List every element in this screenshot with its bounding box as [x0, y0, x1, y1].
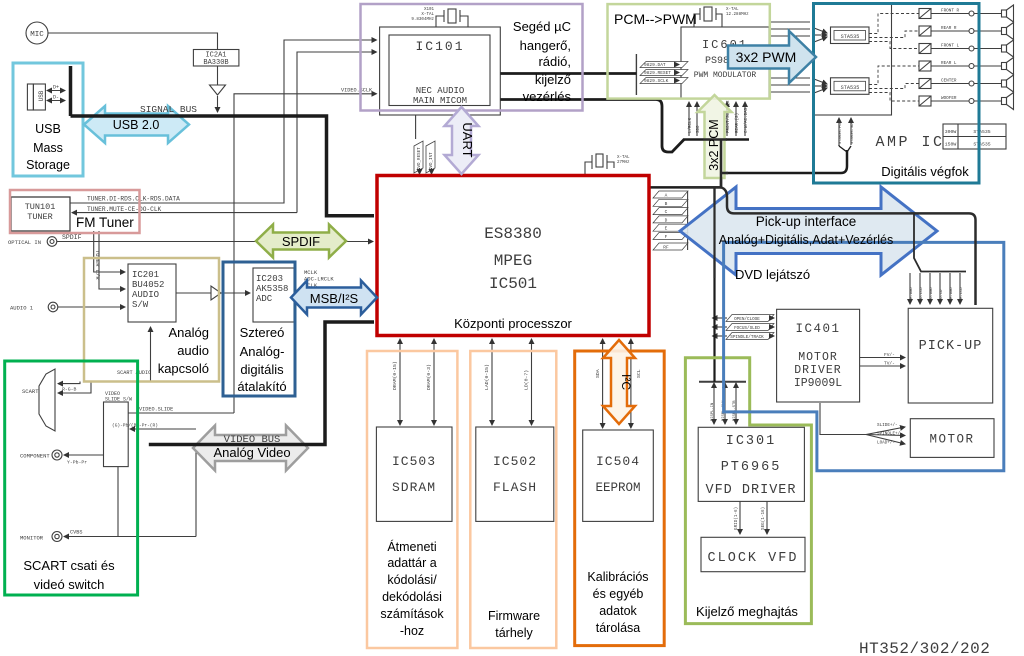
wire video bus thick: [149, 322, 374, 445]
crystal X601: [694, 7, 749, 27]
connector AUDIO 1: [10, 302, 58, 312]
memory bus arrows SDRAM: [392, 339, 434, 425]
svg-text:IC203: IC203: [256, 274, 283, 284]
wire junction vertical: [720, 140, 723, 188]
svg-text:SPINDLE+/-: SPINDLE+/-: [877, 432, 903, 437]
svg-text:Digitális végfok: Digitális végfok: [881, 164, 969, 179]
wire FV TV to pickup: [860, 352, 905, 367]
svg-text:9829.RESET: 9829.RESET: [644, 70, 671, 76]
svg-text:E: E: [665, 226, 668, 232]
svg-text:LD(0-7): LD(0-7): [524, 370, 530, 390]
svg-text:9829.SCLK: 9829.SCLK: [644, 78, 669, 84]
wire scart audio: [117, 327, 151, 381]
node PCM fan labels under IC601: [688, 98, 749, 136]
wire display control into IC301: [699, 382, 746, 424]
wire IC301 to clock vfd: [734, 501, 767, 534]
node TUNER L/R: [94, 250, 101, 280]
svg-text:FRONT L: FRONT L: [941, 44, 959, 49]
svg-text:számítások: számítások: [380, 607, 444, 621]
svg-text:SCL: SCL: [636, 369, 642, 378]
svg-text:IC503: IC503: [392, 454, 436, 469]
svg-text:X-TAL: X-TAL: [726, 8, 739, 12]
svg-text:IP9009L: IP9009L: [794, 377, 842, 390]
svg-text:REAR L: REAR L: [941, 61, 957, 66]
svg-text:AMP IC: AMP IC: [875, 134, 944, 151]
svg-text:VFD DRIVER: VFD DRIVER: [705, 483, 796, 498]
svg-text:DVD lejátszó: DVD lejátszó: [735, 267, 810, 282]
svg-text:MOTOR: MOTOR: [929, 433, 974, 447]
svg-text:WR.DWD: WR.DWD: [950, 287, 954, 301]
svg-text:STA535.SD: STA535.SD: [851, 123, 855, 144]
svg-text:MONITOR: MONITOR: [20, 535, 44, 542]
wire USB D+: [47, 90, 65, 92]
svg-text:WD.LCD: WD.LCD: [920, 287, 924, 301]
svg-text:D: D: [665, 217, 668, 223]
frame flash peach: [470, 351, 556, 648]
svg-text:TUNER: TUNER: [27, 212, 53, 222]
crystal X-TAL 27MHz: [585, 154, 630, 174]
svg-text:Központi processzor: Központi processzor: [454, 316, 572, 331]
THIN SCHEMATIC LAYER: [8, 7, 810, 542]
svg-text:LOAD+/-: LOAD+/-: [877, 441, 895, 446]
connector COMPONENT: [20, 450, 62, 460]
svg-text:D-: D-: [53, 95, 59, 101]
svg-text:hangerő,: hangerő,: [520, 38, 571, 53]
arrow USB 2.0: [84, 106, 189, 143]
wire pcm bus over arrow: [703, 140, 728, 188]
connector MONITOR: [20, 532, 62, 542]
svg-text:adatok: adatok: [599, 604, 637, 618]
svg-text:B: B: [665, 201, 668, 207]
svg-text:SCART AUDIO: SCART AUDIO: [117, 370, 151, 376]
svg-text:DRAM(0-15): DRAM(0-15): [392, 361, 398, 390]
arrow 3x2 PWM: [728, 31, 816, 83]
svg-text:Storage: Storage: [26, 158, 70, 172]
svg-text:IC201: IC201: [132, 270, 159, 280]
svg-text:és egyéb: és egyéb: [593, 587, 644, 601]
buffer triangle: [176, 286, 250, 300]
arrow 3x2 PCM up: [698, 95, 732, 178]
arrow UART: [445, 107, 479, 174]
frame adc blue: [223, 262, 295, 396]
svg-text:AUDIO 1: AUDIO 1: [10, 305, 34, 312]
svg-text:PCM-->PWM: PCM-->PWM: [614, 11, 697, 27]
svg-text:DVD_INT: DVD_INT: [430, 152, 434, 170]
memory bus arrows EEPROM: [595, 339, 642, 428]
svg-text:SLIDE+/-: SLIDE+/-: [877, 423, 898, 428]
svg-text:WR.DWD: WR.DWD: [910, 287, 914, 301]
svg-text:ES8380: ES8380: [484, 225, 542, 243]
wire MIC to IC2A1: [48, 33, 218, 50]
svg-text:AUDIO: AUDIO: [132, 290, 159, 300]
wire component rgb: [112, 423, 196, 430]
video slide switch box: [104, 391, 133, 467]
wire pcm to amp: [721, 150, 847, 173]
svg-text:3x2 PWM: 3x2 PWM: [736, 49, 797, 65]
svg-text:LAD(0-15): LAD(0-15): [484, 364, 490, 390]
svg-text:CENTER: CENTER: [941, 79, 957, 84]
svg-text:9829.DAT: 9829.DAT: [644, 62, 666, 68]
SCART connector symbol: [22, 369, 55, 431]
svg-text:D+: D+: [53, 85, 59, 91]
power amp STA535 lower: [831, 78, 870, 95]
wire audio1 to IC201: [58, 306, 125, 308]
cpu internal labels: [484, 225, 542, 293]
svg-text:SDRAM: SDRAM: [392, 480, 436, 495]
svg-text:STA535: STA535: [973, 142, 990, 148]
ADC IC203 AK5358: [253, 268, 294, 322]
svg-text:TV/-: TV/-: [884, 361, 895, 367]
node 9829 signal fan: [636, 54, 688, 95]
svg-text:R-G-B: R-G-B: [62, 387, 77, 393]
svg-text:FV/-: FV/-: [884, 352, 895, 358]
wire optical spdif to IC501: [57, 241, 373, 243]
eeprom IC504 inner box: [583, 430, 654, 521]
svg-text:SPDIF: SPDIF: [282, 234, 320, 249]
svg-text:NEC AUDIO: NEC AUDIO: [416, 86, 465, 96]
svg-text:CLOCK VFD: CLOCK VFD: [708, 551, 799, 566]
svg-text:USB: USB: [35, 122, 61, 136]
buffer amp triangle: [210, 66, 226, 112]
svg-text:Analóg: Analóg: [169, 325, 209, 340]
wire tuner control: [297, 52, 377, 213]
wire pcm bus: [683, 138, 749, 141]
svg-text:Segéd µC: Segéd µC: [513, 19, 571, 34]
svg-text:MOTOR: MOTOR: [798, 351, 838, 364]
speaker output channels: [869, 5, 1014, 110]
USB connector symbol: [27, 84, 45, 110]
svg-text:MSB/I²S: MSB/I²S: [310, 291, 359, 306]
micom IC101 outer: [380, 27, 501, 115]
node MCLK labels: [304, 269, 334, 289]
wire video slide: [128, 407, 234, 414]
power amp STA535 upper: [831, 27, 870, 44]
wire video sclk to IC101: [234, 94, 377, 413]
wire dvd top bus: [721, 187, 976, 305]
svg-text:Sztereó: Sztereó: [240, 325, 285, 340]
svg-text:USB: USB: [38, 90, 45, 101]
svg-text:S/W: S/W: [132, 300, 149, 310]
THICK BUS LAYER: [71, 66, 852, 382]
svg-text:DISPL.STB: DISPL.STB: [733, 400, 737, 421]
flash IC502 inner box: [476, 427, 554, 521]
svg-text:VIDEO.SLIDE: VIDEO.SLIDE: [139, 407, 173, 413]
svg-text:(G)-Pb/(B)-Pr-(R): (G)-Pb/(B)-Pr-(R): [112, 423, 158, 429]
svg-text:COMPONENT: COMPONENT: [20, 453, 50, 460]
svg-text:UART: UART: [460, 122, 475, 157]
svg-text:GRID(1-6): GRID(1-6): [734, 507, 739, 530]
frame vfd olive: [685, 358, 811, 624]
svg-text:IC301: IC301: [726, 434, 777, 449]
svg-text:TUNER L/R: TUNER L/R: [94, 250, 101, 280]
svg-text:X-TAL: X-TAL: [421, 13, 434, 17]
arrow analog video: [193, 426, 308, 471]
sdram IC503 inner box: [376, 427, 452, 521]
svg-text:Analóg Video: Analóg Video: [213, 445, 290, 460]
svg-text:DISPL.IN: DISPL.IN: [711, 403, 715, 421]
svg-text:FM Tuner: FM Tuner: [76, 215, 134, 230]
svg-text:C+W/AC.DAS: C+W/AC.DAS: [744, 107, 749, 133]
svg-text:FOCUS/SLED: FOCUS/SLED: [734, 326, 760, 331]
svg-text:CVBS: CVBS: [70, 530, 82, 536]
svg-text:DRAM(0-3): DRAM(0-3): [426, 364, 432, 390]
wire open/close focus/sled spindle/track: [713, 315, 775, 341]
frame pwm lightgreen: [608, 4, 770, 99]
wire STA pcm labels: [839, 118, 855, 145]
svg-text:STA535: STA535: [841, 34, 860, 40]
svg-text:STA535.PCM: STA535.PCM: [839, 120, 843, 144]
svg-text:PT6965: PT6965: [721, 460, 782, 475]
arrow SPDIF: [256, 225, 346, 258]
svg-text:VIDEO.SCLK: VIDEO.SCLK: [341, 88, 373, 94]
svg-text:OPTICAL IN: OPTICAL IN: [8, 239, 41, 246]
frame scart green: [5, 361, 138, 595]
svg-text:FRONT R: FRONT R: [941, 9, 959, 14]
THIN SCHEMATIC LAYER RIGHT: [698, 4, 1013, 656]
svg-text:DVD_RESET: DVD_RESET: [418, 147, 422, 170]
svg-text:dekódolási: dekódolási: [382, 590, 442, 604]
svg-text:MIC: MIC: [30, 31, 44, 39]
svg-text:IC501: IC501: [489, 275, 537, 293]
label sdram note: [380, 539, 648, 640]
svg-text:Analóg-: Analóg-: [240, 344, 285, 359]
svg-text:ADC: ADC: [256, 294, 273, 304]
svg-text:X101: X101: [424, 8, 435, 12]
svg-text:HT352/302/202: HT352/302/202: [859, 640, 990, 656]
svg-text:digitális: digitális: [240, 362, 284, 377]
wire dvd vertical over arrow: [680, 187, 721, 278]
svg-text:C: C: [665, 209, 668, 215]
svg-text:MAIN MICOM: MAIN MICOM: [413, 96, 467, 106]
svg-text:SCART csati és: SCART csati és: [23, 558, 115, 573]
amplifier IC2A1 BA330B: [193, 50, 239, 68]
wire tuner RDS data: [70, 40, 377, 203]
memory bus arrows FLASH: [484, 339, 532, 425]
micom IC101 inner: [389, 35, 490, 106]
svg-text:X-TAL: X-TAL: [617, 156, 630, 160]
svg-text:FLASH: FLASH: [493, 480, 537, 495]
frame tuner pink: [10, 190, 140, 233]
svg-text:RF: RF: [663, 245, 669, 251]
display CLOCK VFD box: [701, 537, 805, 571]
crystal X101: [411, 8, 468, 27]
svg-text:adattár a: adattár a: [387, 556, 436, 570]
frame cpu red: [377, 176, 649, 336]
svg-text:SPINDLE/TRACK: SPINDLE/TRACK: [730, 335, 764, 340]
frame eeprom orange: [575, 351, 665, 646]
wire rgb to scart: [58, 382, 80, 384]
wire dvd vertical to vfd: [713, 187, 715, 381]
svg-text:300W: 300W: [945, 129, 957, 135]
svg-text:TUNER.DI-RDS.CLK-RDS.DATA: TUNER.DI-RDS.CLK-RDS.DATA: [87, 196, 180, 203]
wire IC601 outputs to amp: [769, 22, 810, 92]
wire IC101 control bus down: [501, 100, 685, 153]
svg-text:BU4052: BU4052: [132, 280, 164, 290]
tuner TUN101 box: [11, 197, 70, 231]
svg-text:USB 2.0: USB 2.0: [113, 118, 160, 132]
frame audio switch khaki: [84, 258, 219, 382]
svg-text:PWM MODULATOR: PWM MODULATOR: [694, 71, 757, 80]
svg-text:9.8304MHz: 9.8304MHz: [411, 18, 434, 22]
wire IC501 to dvd bus: [650, 186, 722, 189]
wire signal bus thick: [71, 116, 375, 216]
svg-text:WOOFER: WOOFER: [941, 96, 957, 101]
frame amp teal: [814, 4, 980, 184]
svg-text:SEG(1-16): SEG(1-16): [761, 507, 766, 530]
audio switch IC201 BU4052: [128, 264, 176, 322]
node A-F RF bus taps: [653, 191, 688, 251]
svg-text:OPEN/CLOSE: OPEN/CLOSE: [734, 317, 760, 322]
svg-text:IC502: IC502: [493, 454, 537, 469]
arrow MSB/I2S: [291, 281, 377, 315]
svg-text:LO.DWD: LO.DWD: [930, 287, 934, 301]
svg-text:Firmware: Firmware: [488, 609, 540, 623]
frame dvd blue: [724, 242, 1004, 470]
connector OPTICAL IN: [8, 234, 82, 246]
wire IC101 to IC601: [501, 72, 637, 75]
svg-text:EEPROM: EEPROM: [595, 481, 640, 495]
svg-text:IC504: IC504: [596, 454, 640, 469]
motor box: [910, 419, 994, 458]
microphone MIC: [26, 22, 48, 44]
svg-text:tárhely: tárhely: [495, 626, 533, 640]
svg-text:STA535: STA535: [973, 129, 990, 135]
svg-text:TUN101: TUN101: [25, 202, 56, 212]
wire DVD reset/int from IC101: [414, 115, 435, 174]
svg-text:SDO: SDO: [697, 125, 701, 133]
wire pickup signal drops: [910, 273, 964, 304]
frame usb cyan: [13, 63, 83, 176]
svg-text:TUNER.MUTE-CE-DO-CLK: TUNER.MUTE-CE-DO-CLK: [87, 206, 162, 213]
wire pwm into STA535 upper: [814, 28, 827, 42]
svg-text:I²C: I²C: [619, 374, 633, 390]
svg-text:SPDIF: SPDIF: [62, 234, 82, 241]
svg-text:DRIVER: DRIVER: [794, 364, 841, 377]
svg-text:kódolási/: kódolási/: [387, 573, 437, 587]
svg-text:L/RCLK: L/RCLK: [688, 117, 693, 133]
svg-text:IC401: IC401: [795, 322, 840, 336]
wire usb vertical: [69, 66, 73, 116]
svg-text:Y-Pb-Pr: Y-Pb-Pr: [67, 460, 87, 466]
svg-text:MPEG: MPEG: [494, 252, 532, 270]
frame sdram peach: [367, 351, 457, 648]
svg-text:SCART: SCART: [22, 388, 39, 395]
svg-text:rádió,: rádió,: [538, 54, 571, 69]
svg-text:PICK-UP: PICK-UP: [919, 339, 983, 354]
amp power table: [943, 124, 1006, 149]
svg-text:REAR R: REAR R: [941, 26, 957, 31]
svg-text:STA535: STA535: [841, 85, 860, 91]
wire pickup label bus: [914, 212, 966, 271]
svg-text:tárolása: tárolása: [596, 621, 641, 635]
svg-text:Kijelző meghajtás: Kijelző meghajtás: [696, 604, 798, 619]
svg-text:Pick-up interface: Pick-up interface: [756, 214, 857, 229]
svg-text:12.288MHz: 12.288MHz: [726, 13, 749, 17]
svg-text:Mass: Mass: [33, 141, 63, 155]
wire IC401 to motor: [820, 403, 905, 446]
svg-text:videó switch: videó switch: [34, 577, 105, 592]
svg-text:27MHz: 27MHz: [617, 161, 630, 165]
svg-text:Analóg+Digitális,Adat+Vezérlés: Analóg+Digitális,Adat+Vezérlés: [719, 233, 893, 247]
svg-text:BA330B: BA330B: [203, 59, 228, 67]
modulator IC601 PS9830: [681, 27, 769, 99]
wire CVBS: [64, 530, 196, 537]
motor driver IC401 IP9009L: [777, 309, 860, 402]
svg-text:SLIDE S/W: SLIDE S/W: [105, 397, 132, 403]
svg-text:Kalibrációs: Kalibrációs: [587, 570, 648, 584]
svg-text:kijelző: kijelző: [535, 72, 571, 87]
svg-text:F: F: [665, 234, 668, 240]
svg-text:LO.CD: LO.CD: [940, 289, 944, 301]
pickup unit box: [908, 308, 993, 403]
svg-text:Átmeneti: Átmeneti: [387, 539, 436, 554]
svg-text:AK5358: AK5358: [256, 284, 288, 294]
arrow I2C: [603, 340, 635, 424]
wire pwm into STA535 lower: [814, 79, 827, 93]
svg-text:átalakító: átalakító: [237, 379, 286, 394]
svg-text:kapcsoló: kapcsoló: [158, 361, 209, 376]
svg-text:-hoz: -hoz: [400, 624, 424, 638]
amp inner box: [814, 4, 892, 116]
vfd driver IC301 PT6965: [698, 427, 804, 501]
svg-text:150W: 150W: [945, 142, 957, 148]
svg-text:3x2 PCM: 3x2 PCM: [707, 119, 721, 170]
frame micom purple: [361, 4, 583, 111]
svg-text:FRONT/SURR.(2): FRONT/SURR.(2): [726, 98, 731, 133]
svg-text:WR.LCD: WR.LCD: [960, 287, 964, 301]
svg-text:REAR.(2): REAR.(2): [735, 113, 740, 133]
svg-text:SDA: SDA: [595, 369, 601, 378]
wire tuner LR to IC201: [94, 231, 125, 272]
wire USB D-: [47, 100, 65, 102]
svg-text:vezérlés: vezérlés: [523, 89, 572, 104]
svg-text:A: A: [665, 193, 668, 199]
svg-text:audio: audio: [177, 343, 209, 358]
svg-text:IC101: IC101: [415, 39, 464, 54]
svg-text:SIGNAL BUS: SIGNAL BUS: [140, 104, 197, 115]
arrow pick-up interface: [680, 187, 937, 275]
